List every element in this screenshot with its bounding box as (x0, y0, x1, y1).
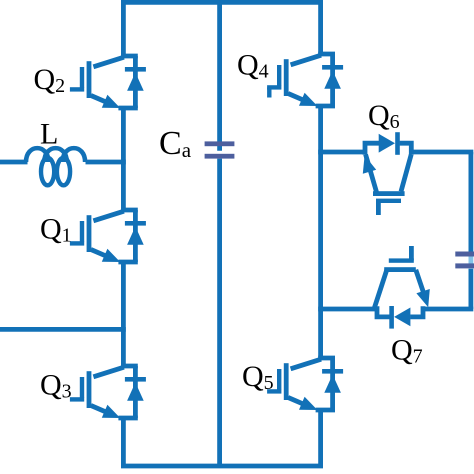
svg-text:Q3: Q3 (40, 369, 72, 403)
capacitor (right edge) gap (469, 252, 474, 269)
wire: inductor left lead (0, 160, 28, 165)
capacitor (right edge) plates (455, 252, 474, 269)
wire: bottom DC bus (121, 464, 323, 469)
transistor Q3 (IGBT with antiparallel diode) (70, 366, 146, 418)
capacitor Ca plates (205, 141, 235, 158)
wire: Q7 left lead from right column (318, 307, 377, 312)
wire: left column, Q3 emitter to bottom bus (121, 418, 126, 466)
svg-text:L: L (40, 118, 58, 151)
wire: right column, Q5 emitter to bottom bus (318, 410, 323, 466)
svg-text:Q6: Q6 (368, 99, 400, 133)
transistor Q1 (IGBT with antiparallel diode) (70, 210, 146, 262)
transistor Q5 (IGBT with antiparallel diode) (267, 358, 343, 410)
svg-text:Ca: Ca (159, 125, 192, 162)
svg-text:Q7: Q7 (391, 334, 423, 368)
wire: top DC bus (121, 0, 323, 5)
transistor Q7 (horizontal IGBT with series diode loop) (375, 246, 430, 329)
inductor L (26, 148, 85, 185)
wire: Q6 left lead from right column (318, 150, 365, 155)
wire: left column, top bus to Q2 collector (121, 0, 126, 56)
wire: inductor right lead to left column node (86, 160, 126, 165)
transistor Q4 (IGBT with antiparallel diode) (267, 54, 343, 106)
wire: left column, Q2 emitter to Q1 collector (through L node) (121, 108, 126, 210)
wire: middle column, capacitor Ca to bottom bus (217, 159, 222, 466)
wire: Q6 right lead to right edge (411, 150, 473, 155)
svg-text:Q2: Q2 (34, 63, 66, 97)
svg-text:Q1: Q1 (40, 213, 72, 247)
wire: middle column, top bus to capacitor Ca (217, 2, 222, 150)
wire: mid-left horizontal to left column (0, 327, 126, 332)
transistor Q2 (IGBT with antiparallel diode) (70, 56, 146, 108)
wire: right column, top bus to Q4 collector (318, 0, 323, 54)
wire: right edge vertical, Q6 tap down to capacitor (468, 152, 473, 252)
transistor Q6 (horizontal IGBT with series diode loop) (363, 132, 412, 215)
wire: Q7 right lead to right edge (423, 307, 473, 312)
svg-text:Q5: Q5 (242, 360, 274, 394)
wire: left column, Q1 emitter to Q3 collector (through mid node) (121, 262, 126, 366)
wire: right column, Q4 emitter to Q5 collector (through Q6/Q7 taps) (318, 106, 323, 358)
wire: right edge vertical, capacitor down to Q7 tap (468, 269, 473, 309)
svg-text:Q4: Q4 (237, 49, 269, 83)
